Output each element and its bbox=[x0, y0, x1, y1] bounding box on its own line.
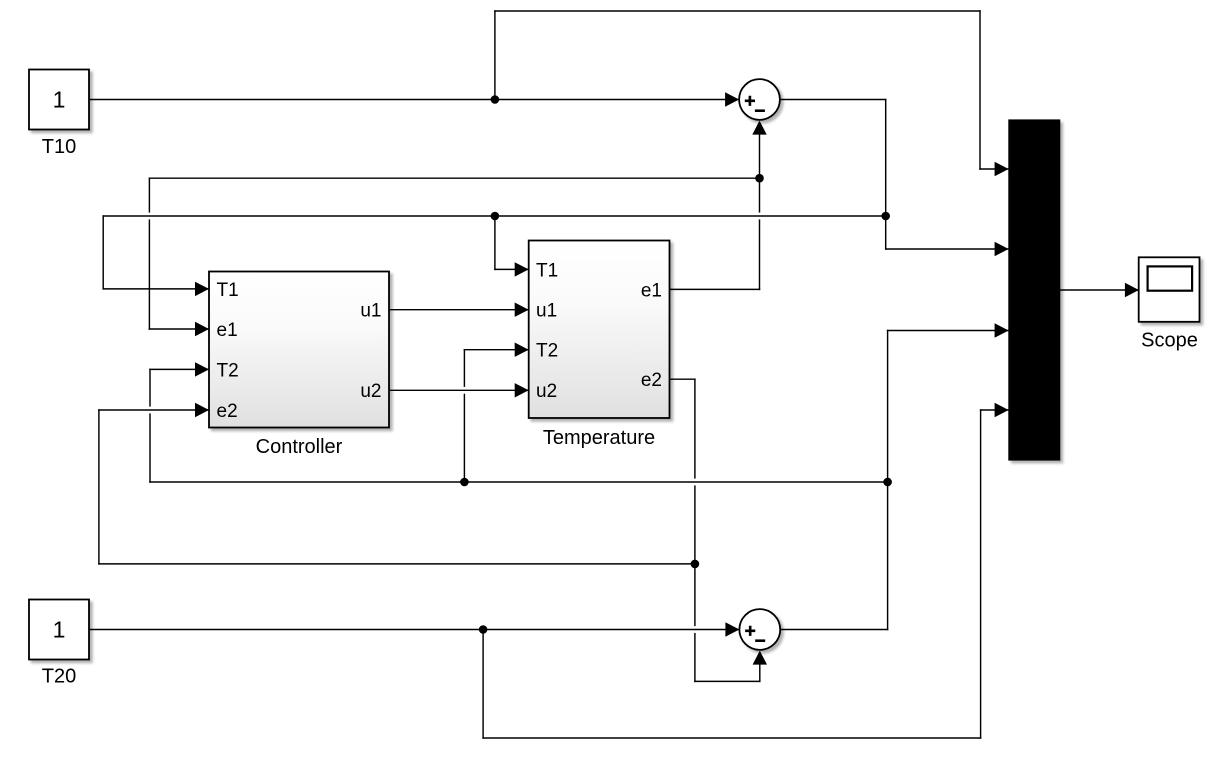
wire e2 branch bbox=[99, 563, 695, 565]
wire into Controller e1 bbox=[149, 328, 209, 330]
arrowhead into Temperature u2 bbox=[515, 383, 529, 397]
wire crossing gap bbox=[758, 213, 762, 220]
svg-text:T10: T10 bbox=[42, 136, 76, 158]
wire vertical Sum1 output down to Mux input2 bbox=[885, 100, 887, 250]
wire crossing gap bbox=[148, 213, 152, 220]
junction node on T20 line bbox=[479, 625, 488, 634]
wire vertical Temperature e2 down bbox=[694, 379, 696, 681]
wire Temperature e1 output bbox=[670, 288, 760, 290]
wire bottom rail bbox=[483, 737, 980, 739]
arrowhead into Controller e2 bbox=[195, 403, 209, 417]
wire Sum1 output bbox=[780, 99, 886, 101]
wire top rail bbox=[495, 10, 980, 12]
arrowhead into Mux input3 bbox=[995, 323, 1009, 337]
wire into Mux input1 bbox=[980, 168, 1009, 170]
junction node on T10 line bbox=[491, 95, 500, 104]
wire vertical T20 branch down to bottom rail bbox=[482, 630, 484, 739]
arrowhead into Sum1 plus bbox=[725, 92, 739, 106]
wire into Sum2 minus bbox=[695, 680, 760, 682]
svg-text:e1: e1 bbox=[641, 280, 662, 301]
junction node branch to Temperature T1 bbox=[491, 212, 500, 221]
wire vertical up to Sum2 minus bbox=[759, 665, 761, 682]
wire vertical branch down to Temperature T1 bbox=[494, 216, 496, 269]
svg-text:T1: T1 bbox=[536, 260, 558, 281]
wire into Temperature T2 bbox=[464, 349, 528, 351]
arrowhead into Mux input2 bbox=[995, 242, 1009, 256]
arrowhead into Controller T1 bbox=[195, 282, 209, 296]
wire Sum1 net to T1 inputs bbox=[103, 215, 886, 217]
svg-text:u2: u2 bbox=[536, 381, 557, 402]
wire Sum2 net branch bbox=[150, 481, 888, 483]
arrowhead into Mux input4 bbox=[995, 403, 1009, 417]
junction node on e2 net bbox=[691, 560, 700, 569]
arrowhead into Temperature T1 bbox=[515, 262, 529, 276]
wire into Controller e2 bbox=[99, 409, 209, 411]
wire vertical e1 branch down to Controller e1 bbox=[148, 178, 150, 329]
svg-text:u1: u1 bbox=[536, 301, 557, 322]
wire e1 branch bbox=[149, 177, 759, 179]
wire vertical bottom rail up to Mux input4 bbox=[980, 410, 982, 738]
svg-text:T20: T20 bbox=[42, 666, 76, 688]
svg-text:T2: T2 bbox=[536, 341, 558, 362]
svg-text:e1: e1 bbox=[217, 320, 238, 341]
wire into Mux input4 bbox=[981, 409, 1009, 411]
svg-text:1: 1 bbox=[53, 616, 66, 642]
svg-text:Scope: Scope bbox=[1141, 330, 1198, 352]
svg-text:e2: e2 bbox=[217, 401, 238, 422]
wire crossing gap bbox=[693, 626, 697, 633]
arrowhead into Sum2 minus bbox=[753, 651, 767, 665]
wire vertical branch up to Temperature T2 bbox=[463, 350, 465, 482]
svg-text:Temperature: Temperature bbox=[543, 427, 655, 449]
subsystem block Controller bbox=[209, 272, 389, 428]
sum block Sum1 bbox=[739, 79, 780, 120]
wire vertical Temperature e1 up to Sum1 minus bbox=[759, 135, 761, 290]
svg-text:Controller: Controller bbox=[256, 436, 343, 458]
scope block bbox=[1139, 257, 1200, 322]
wire vertical top rail down to Mux input1 bbox=[979, 11, 981, 169]
svg-text:T1: T1 bbox=[217, 280, 239, 301]
wire into Mux input3 bbox=[888, 330, 1009, 332]
wire into Controller T2 bbox=[150, 368, 209, 370]
mux block bbox=[1008, 119, 1060, 460]
wire vertical down to Controller T1 bbox=[102, 216, 104, 289]
junction node branch to Temperature T2 bbox=[460, 478, 469, 487]
wire T20 to Sum2 plus input bbox=[89, 629, 740, 631]
wire crossing gap bbox=[148, 407, 152, 414]
wire into Temperature T1 bbox=[495, 268, 529, 270]
junction node on e1 net bbox=[755, 174, 764, 183]
constant block T20 bbox=[29, 600, 89, 660]
wire crossing gap bbox=[693, 479, 697, 486]
wire vertical Sum2 output up to Mux input3 bbox=[887, 331, 889, 630]
svg-text:u2: u2 bbox=[360, 381, 381, 402]
svg-text:1: 1 bbox=[53, 86, 66, 112]
wire Temperature e2 output bbox=[670, 378, 695, 380]
sum block Sum2 bbox=[739, 609, 780, 650]
wire Sum2 output bbox=[780, 629, 887, 631]
arrowhead into Mux input1 bbox=[995, 162, 1009, 176]
subsystem block Temperature bbox=[529, 241, 670, 419]
svg-text:e2: e2 bbox=[641, 370, 662, 391]
arrowhead into Temperature T2 bbox=[515, 343, 529, 357]
junction node on Sum2 output net bbox=[883, 478, 892, 487]
arrowhead into Temperature u1 bbox=[515, 303, 529, 317]
arrowhead into Sum2 plus bbox=[725, 622, 739, 636]
wire crossing gap bbox=[463, 387, 467, 394]
wire vertical from T10 line up to top rail bbox=[494, 11, 496, 100]
arrowhead into Scope bbox=[1125, 283, 1139, 297]
svg-text:T2: T2 bbox=[217, 360, 239, 381]
wire Mux to Scope bbox=[1060, 289, 1139, 291]
svg-text:u1: u1 bbox=[360, 301, 381, 322]
wire u1 Controller to Temperature bbox=[389, 309, 529, 311]
wire into Mux input2 bbox=[886, 248, 1009, 250]
arrowhead into Controller e1 bbox=[195, 322, 209, 336]
wire vertical e2 branch up to Controller e2 bbox=[98, 410, 100, 564]
arrowhead into Controller T2 bbox=[195, 362, 209, 376]
wire u2 Controller to Temperature bbox=[389, 389, 529, 391]
wire into Controller T1 bbox=[103, 288, 209, 290]
constant block T10 bbox=[29, 70, 89, 130]
junction node on Sum1 output net bbox=[881, 212, 890, 221]
wire T10 to Sum1 plus input bbox=[89, 99, 740, 101]
arrowhead into Sum1 minus bbox=[752, 121, 766, 135]
wire vertical branch up to Controller T2 bbox=[149, 369, 151, 482]
